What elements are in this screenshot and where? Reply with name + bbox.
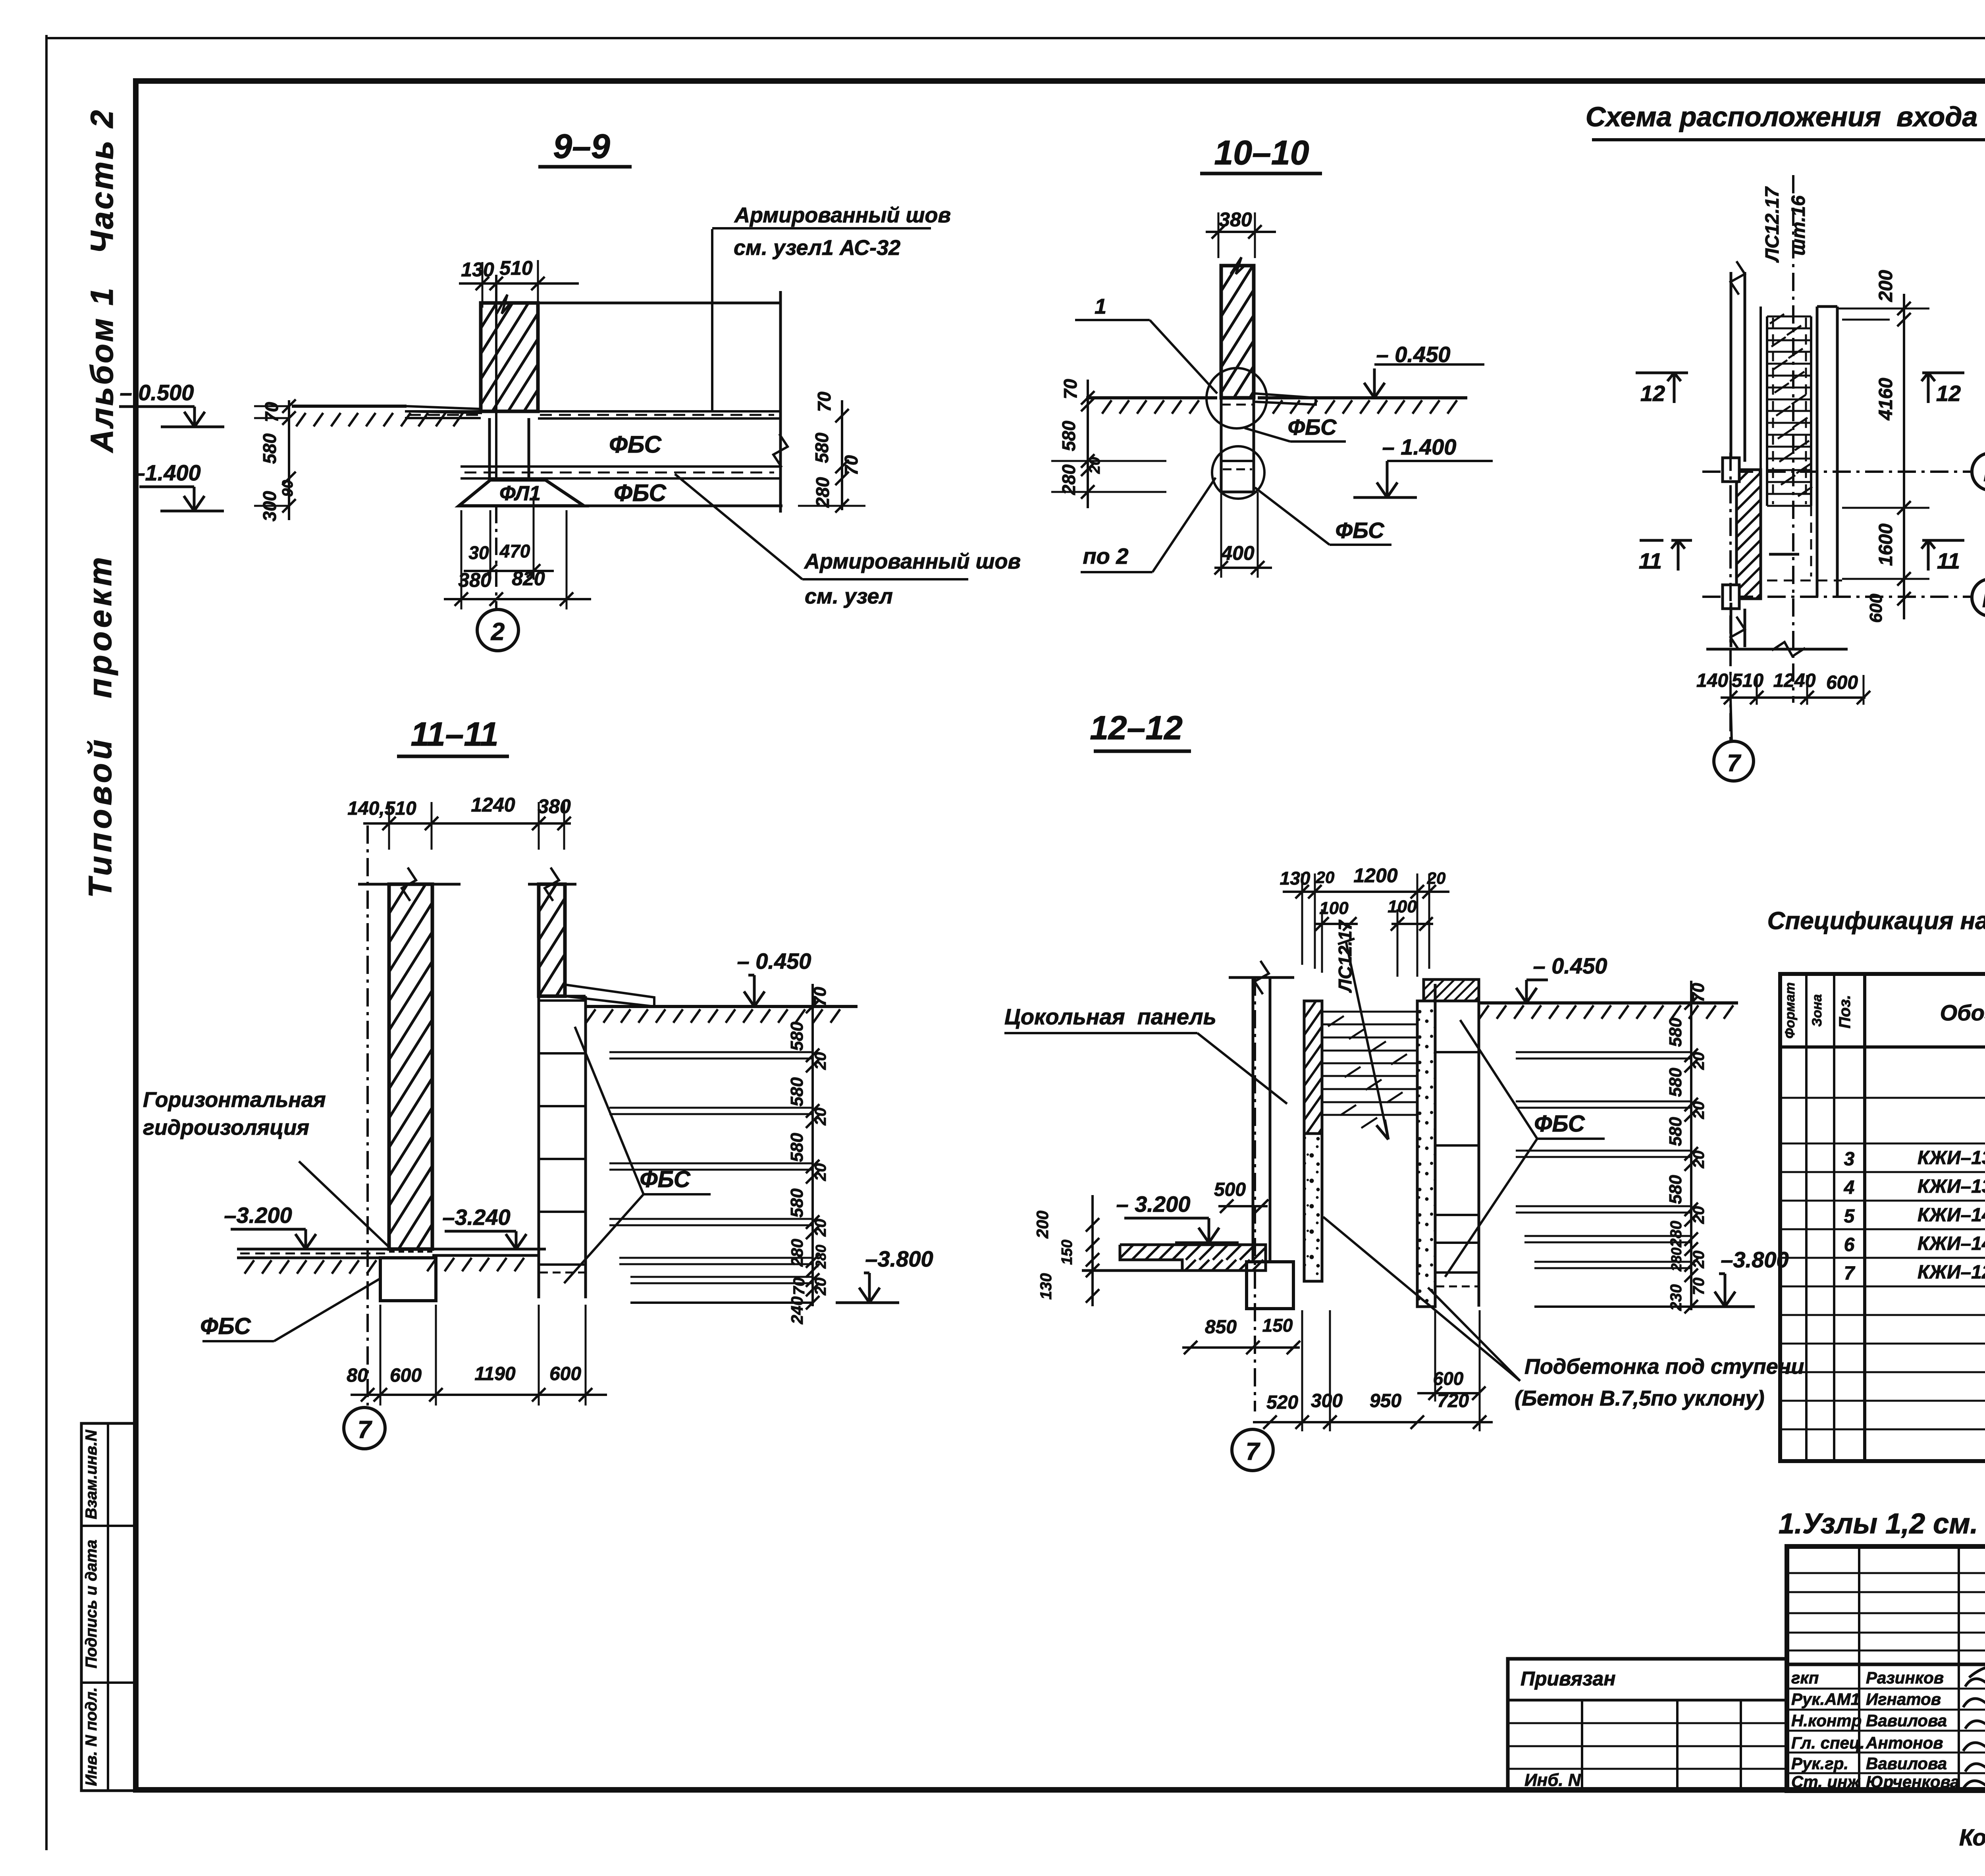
svg-text:100: 100	[1319, 898, 1349, 918]
scheme section mark 12 right	[1922, 372, 1964, 374]
scheme hidden stringer dashes	[1772, 318, 1774, 504]
svg-text:6: 6	[1844, 1234, 1855, 1255]
svg-text:гкп: гкп	[1791, 1668, 1819, 1687]
svg-text:КЖИ–140–01: КЖИ–140–01	[1918, 1233, 1985, 1254]
svg-text:580: 580	[787, 1133, 807, 1162]
svg-text:1240: 1240	[471, 794, 515, 816]
svg-text:240: 240	[788, 1296, 806, 1325]
svg-text:– 0.500: – 0.500	[120, 380, 194, 405]
svg-text:2: 2	[491, 618, 505, 646]
9-9 axis mark circle 2	[495, 506, 497, 610]
svg-text:300: 300	[259, 491, 280, 521]
svg-text:7: 7	[1246, 1438, 1260, 1465]
svg-text:100: 100	[1388, 897, 1417, 916]
svg-text:580: 580	[259, 433, 280, 464]
svg-text:580: 580	[811, 432, 832, 463]
svg-text:по 2: по 2	[1083, 544, 1128, 569]
svg-text:Вавилова: Вавилова	[1866, 1754, 1947, 1773]
scheme stringer edge line	[1760, 307, 1762, 470]
svg-text:850: 850	[1205, 1317, 1237, 1338]
10-10 below ground wall column	[1220, 398, 1223, 492]
11-11 right FBS column	[538, 996, 540, 1298]
svg-text:20: 20	[812, 1052, 829, 1070]
svg-text:70: 70	[790, 1278, 808, 1296]
svg-text:20: 20	[1690, 1206, 1707, 1224]
9-9 leader vertical to seam label	[711, 229, 713, 411]
svg-text:70: 70	[841, 455, 861, 476]
svg-text:Рук.АМ1: Рук.АМ1	[1791, 1690, 1860, 1708]
scheme dim 200/4160/1600/600 chain	[1903, 294, 1905, 619]
svg-text:20: 20	[812, 1278, 829, 1296]
svg-text:Типовой проект: Типовой проект	[82, 553, 118, 898]
11-11 ground line right	[586, 1005, 858, 1008]
svg-text:ЛС12.17: ЛС12.17	[1335, 920, 1355, 993]
scheme stair treads	[1766, 316, 1768, 506]
svg-text:20: 20	[812, 1163, 829, 1182]
svg-text:Инб. N: Инб. N	[1524, 1770, 1581, 1790]
9-9 floor panel top line	[509, 302, 781, 305]
9-9 wall hatched	[481, 303, 538, 411]
svg-text:Вавилова: Вавилова	[1866, 1711, 1947, 1730]
svg-text:130: 130	[1280, 868, 1310, 889]
scheme lower landing hidden lines	[1810, 506, 1812, 576]
svg-text:11–11: 11–11	[410, 715, 498, 753]
svg-text:130: 130	[1037, 1273, 1055, 1300]
svg-text:ФБС: ФБС	[1335, 518, 1385, 543]
svg-text:820: 820	[512, 567, 545, 590]
svg-text:1.Узлы 1,2 см. альбом 1 часть: 1.Узлы 1,2 см. альбом 1 часть 1 лист.АС-…	[1779, 1508, 1985, 1540]
svg-text:580: 580	[1666, 1175, 1685, 1204]
10-10 ground line right	[1258, 396, 1467, 399]
svg-text:90: 90	[279, 480, 296, 497]
scheme stair hatch ticks	[1770, 314, 1812, 496]
11-11 axis mark circle 7	[344, 1407, 385, 1449]
svg-text:140: 140	[1696, 670, 1728, 691]
svg-text:Цокольная панель: Цокольная панель	[1004, 1004, 1216, 1029]
svg-text:Схема расположения входа в по: Схема расположения входа в подвал	[1586, 101, 1985, 132]
svg-text:70: 70	[814, 391, 834, 412]
sheet outer border	[45, 35, 48, 1850]
12-12 left wall lines	[1252, 978, 1255, 1262]
svg-text:70: 70	[1690, 1278, 1707, 1296]
10-10 detail circle upper	[1206, 368, 1267, 428]
scheme axis node square В	[1723, 585, 1739, 609]
svg-text:КЖИ–130: КЖИ–130	[1918, 1147, 1985, 1168]
12-12 right floor strips	[1516, 1051, 1691, 1053]
svg-text:Формат: Формат	[1783, 982, 1798, 1039]
svg-text:10–10: 10–10	[1214, 134, 1309, 172]
svg-text:12–12: 12–12	[1090, 709, 1183, 746]
10-10 detail circle lower	[1212, 446, 1264, 499]
svg-text:30: 30	[468, 542, 489, 563]
svg-text:ФБС: ФБС	[1287, 415, 1337, 440]
svg-text:Н.контр: Н.контр	[1791, 1711, 1862, 1730]
9-9 break Z on FBS	[773, 434, 788, 467]
svg-text:Юрченкова: Юрченкова	[1866, 1772, 1960, 1791]
12-12 right speckled column	[1417, 1001, 1435, 1307]
12-12 right dim chain	[1690, 981, 1692, 1310]
svg-text:Копировал: Жукова: Копировал: Жукова	[1959, 1825, 1985, 1851]
svg-text:см. узел: см. узел	[805, 584, 893, 608]
scheme stair axis vertical	[1792, 175, 1794, 703]
svg-text:– 0.450: – 0.450	[737, 949, 811, 974]
11-11 left floor slab	[237, 1248, 389, 1251]
12-12 stair tread hatch ticks	[1328, 1016, 1407, 1128]
9-9 wall break mark	[497, 295, 511, 314]
svg-text:580: 580	[1666, 1018, 1685, 1047]
svg-text:– 3.200: – 3.200	[1116, 1192, 1191, 1217]
svg-text:230: 230	[1667, 1284, 1685, 1311]
scheme left wall upper	[1730, 272, 1733, 462]
svg-text:600: 600	[1826, 672, 1858, 693]
svg-text:гидроизоляция: гидроизоляция	[143, 1116, 309, 1139]
svg-text:ФБС: ФБС	[640, 1166, 691, 1192]
svg-text:Поз.: Поз.	[1836, 995, 1854, 1029]
9-9 leader to seam note	[675, 474, 802, 579]
svg-text:150: 150	[1262, 1315, 1293, 1336]
svg-text:1190: 1190	[474, 1363, 516, 1384]
svg-text:11: 11	[1639, 548, 1662, 573]
svg-text:580: 580	[787, 1077, 807, 1107]
svg-text:600: 600	[390, 1365, 422, 1386]
svg-text:Привязан: Привязан	[1521, 1668, 1616, 1690]
svg-text:Гл. спец.: Гл. спец.	[1791, 1733, 1865, 1752]
svg-text:– 0.450: – 0.450	[1376, 342, 1451, 367]
scheme bottom wall below В	[1730, 603, 1733, 647]
svg-text:400: 400	[1221, 542, 1255, 564]
svg-text:В: В	[1982, 586, 1985, 612]
svg-text:20: 20	[1087, 457, 1103, 474]
specification table grid	[1780, 974, 1985, 1461]
svg-text:Армированный шов: Армированный шов	[734, 203, 951, 227]
10-10 ground line left	[1086, 396, 1217, 399]
svg-text:12: 12	[1640, 381, 1665, 406]
svg-text:70: 70	[261, 402, 282, 422]
12-12 left speckled column	[1304, 1134, 1322, 1281]
svg-text:280: 280	[812, 477, 833, 508]
svg-text:КЖИ–130–01: КЖИ–130–01	[1918, 1176, 1985, 1197]
svg-text:80: 80	[347, 1365, 368, 1386]
svg-text:4160: 4160	[1875, 378, 1896, 420]
svg-text:280: 280	[1668, 1247, 1684, 1272]
svg-text:1200: 1200	[1353, 864, 1397, 887]
11-11 right floor strips	[609, 1051, 813, 1053]
svg-text:Подбетонка под ступени: Подбетонка под ступени	[1524, 1355, 1804, 1379]
svg-text:1600: 1600	[1875, 523, 1896, 566]
scheme axis В	[1702, 596, 1972, 598]
svg-text:300: 300	[1311, 1390, 1343, 1411]
11-11 floor right of wall	[432, 1248, 539, 1251]
svg-text:20: 20	[1316, 868, 1335, 887]
9-9 left dim chain	[288, 400, 290, 520]
12-12 axis mark circle 7	[1232, 1429, 1273, 1471]
svg-text:20: 20	[1690, 1052, 1707, 1070]
svg-text:Рук.гр.: Рук.гр.	[1791, 1754, 1848, 1773]
svg-text:200: 200	[1875, 270, 1896, 302]
12-12 stair slope line with arrow	[1346, 941, 1388, 1139]
svg-text:– 0.450: – 0.450	[1533, 953, 1607, 978]
svg-text:20: 20	[1690, 1151, 1707, 1169]
11-11 right wall hatched	[539, 884, 565, 996]
svg-text:510: 510	[499, 257, 533, 279]
svg-text:140,510: 140,510	[347, 798, 416, 819]
10-10 block joint lines	[1221, 460, 1254, 462]
svg-text:580: 580	[787, 1022, 807, 1051]
scheme section mark 11 left	[1640, 539, 1692, 542]
9-9 floor slab -0.500 strips	[405, 410, 481, 413]
10-10 wall hatched	[1221, 266, 1254, 398]
scheme axis mark circle 7	[1714, 741, 1754, 781]
11-11 left wall hatched	[389, 884, 432, 1249]
svg-text:КЖИ–140: КЖИ–140	[1918, 1205, 1985, 1226]
12-12 left small dims 200/150/130	[1091, 1195, 1094, 1306]
svg-text:280: 280	[788, 1239, 806, 1267]
svg-text:Горизонтальная: Горизонтальная	[143, 1088, 326, 1112]
9-9 footing FL1	[459, 480, 584, 506]
svg-text:3: 3	[1844, 1149, 1855, 1170]
svg-text:КЖИ–120: КЖИ–120	[1918, 1262, 1985, 1283]
svg-text:20: 20	[812, 1108, 829, 1126]
svg-text:7: 7	[1844, 1263, 1856, 1284]
12-12 top of right column hatch	[1424, 979, 1479, 1001]
svg-text:(Бетон В.7,5по уклону): (Бетон В.7,5по уклону)	[1515, 1386, 1764, 1410]
svg-text:Альбом 1 Часть 2: Альбом 1 Часть 2	[84, 108, 119, 453]
svg-text:Армированный шов: Армированный шов	[804, 549, 1021, 573]
svg-text:580: 580	[1666, 1117, 1685, 1146]
12-12 left floor hatched step	[1120, 1245, 1266, 1260]
svg-text:Ст. инж: Ст. инж	[1791, 1772, 1860, 1791]
svg-text:4: 4	[1844, 1177, 1855, 1198]
svg-text:ФБС: ФБС	[614, 480, 667, 506]
svg-text:70: 70	[1060, 379, 1081, 399]
svg-text:Инв. N подл.: Инв. N подл.	[83, 1687, 100, 1786]
svg-text:–1.400: –1.400	[133, 460, 200, 485]
10-10 ramp wedge right	[1255, 393, 1316, 405]
scheme axis to circle 7	[1729, 453, 1732, 741]
svg-text:ФБС: ФБС	[1534, 1111, 1585, 1137]
svg-text:280: 280	[1667, 1221, 1685, 1248]
9-9 lower band bottom line	[459, 505, 782, 507]
svg-text:600: 600	[1433, 1368, 1464, 1389]
title block upper thin rows	[1787, 1572, 1985, 1574]
svg-text:580: 580	[787, 1188, 807, 1218]
svg-text:–3.800: –3.800	[865, 1246, 933, 1271]
svg-text:Зона: Зона	[1810, 994, 1825, 1027]
9-9 panel right edge	[779, 291, 782, 513]
svg-text:200: 200	[1033, 1211, 1052, 1239]
title block signature rows	[1787, 1688, 1985, 1690]
svg-text:см. узел1 АС-32: см. узел1 АС-32	[734, 236, 900, 260]
svg-text:950: 950	[1370, 1390, 1401, 1411]
svg-text:12: 12	[1936, 381, 1961, 406]
svg-text:7: 7	[1727, 750, 1741, 776]
12-12 stair ladder	[1321, 1012, 1323, 1128]
svg-text:580: 580	[1666, 1068, 1685, 1097]
svg-text:470: 470	[499, 541, 530, 561]
left margin stamp column	[81, 1423, 137, 1791]
svg-text:20: 20	[812, 1219, 829, 1237]
12-12 stair footing block	[1247, 1262, 1293, 1309]
title block привязан box	[1508, 1659, 1786, 1791]
svg-text:Антонов: Антонов	[1866, 1733, 1943, 1752]
svg-text:Взам.инв.N: Взам.инв.N	[83, 1429, 100, 1519]
svg-text:Обозначение: Обозначение	[1940, 1000, 1985, 1025]
title block signatures squiggles	[1965, 1677, 1985, 1687]
svg-text:ФБС: ФБС	[609, 431, 662, 458]
svg-text:380: 380	[538, 795, 571, 817]
scheme section mark 11 right	[1922, 539, 1964, 542]
11-11 wall footing block	[380, 1258, 436, 1301]
9-9 middle seam strips	[461, 465, 781, 468]
svg-text:150: 150	[1059, 1240, 1075, 1265]
svg-text:–3.200: –3.200	[224, 1203, 292, 1228]
scheme right wall	[1816, 307, 1819, 597]
scheme axis Г	[1702, 470, 1972, 473]
svg-text:1240: 1240	[1773, 670, 1816, 691]
svg-text:1: 1	[1095, 295, 1106, 318]
svg-text:520: 520	[1266, 1392, 1298, 1413]
12-12 ground line right	[1479, 1001, 1738, 1005]
11-11 right dim chain	[811, 984, 814, 1306]
svg-text:280: 280	[1058, 464, 1079, 495]
11-11 ramp wedge right	[565, 985, 654, 1006]
scheme hatched wall left between axes	[1736, 470, 1761, 599]
svg-text:380: 380	[458, 569, 491, 591]
scheme section mark 12 left	[1636, 372, 1688, 374]
12-12 axis line	[1254, 978, 1256, 1411]
svg-text:500: 500	[1214, 1179, 1246, 1200]
svg-text:510: 510	[1732, 670, 1763, 691]
svg-text:70: 70	[1688, 983, 1708, 1002]
svg-text:70: 70	[810, 987, 830, 1006]
svg-text:Разинков: Разинков	[1866, 1668, 1944, 1687]
svg-text:ЛС12.17: ЛС12.17	[1762, 186, 1783, 263]
svg-text:11: 11	[1937, 548, 1960, 573]
scheme axis node square Г	[1723, 458, 1739, 482]
svg-text:– 1.400: – 1.400	[1382, 434, 1457, 459]
svg-text:–3.240: –3.240	[442, 1205, 510, 1230]
9-9 ground line left	[292, 405, 407, 408]
svg-text:шт.16: шт.16	[1788, 195, 1809, 256]
9-9 ground hatch left	[296, 413, 463, 426]
svg-text:9–9: 9–9	[553, 127, 610, 166]
svg-text:280: 280	[813, 1245, 829, 1269]
svg-text:7: 7	[358, 1416, 372, 1444]
svg-text:Г: Г	[1983, 461, 1985, 486]
10-10 wall break mark	[1231, 257, 1245, 274]
svg-text:20: 20	[1690, 1101, 1707, 1120]
11-11 axis line	[366, 825, 369, 1406]
svg-text:Игнатов: Игнатов	[1866, 1690, 1941, 1708]
scheme bottom ground line	[1706, 648, 1848, 651]
svg-text:580: 580	[1058, 420, 1079, 451]
title block main frame	[1787, 1546, 1985, 1791]
12-12 right FBS column	[1434, 984, 1437, 1307]
svg-text:Подпись и дата: Подпись и дата	[83, 1540, 100, 1668]
svg-text:600: 600	[549, 1363, 581, 1384]
svg-text:ФБС: ФБС	[200, 1313, 251, 1339]
svg-text:Спецификация на армированную п: Спецификация на армированную подготовку …	[1767, 907, 1985, 935]
svg-text:20: 20	[1690, 1251, 1707, 1269]
svg-text:5: 5	[1844, 1206, 1855, 1227]
9-9 right dim chain	[841, 400, 843, 510]
10-10 left dim chain	[1087, 380, 1089, 508]
12-12 stair stringer hatched	[1304, 1001, 1322, 1134]
9-9 below-ground wall	[488, 418, 491, 480]
9-9 ramp wedge	[407, 406, 481, 413]
